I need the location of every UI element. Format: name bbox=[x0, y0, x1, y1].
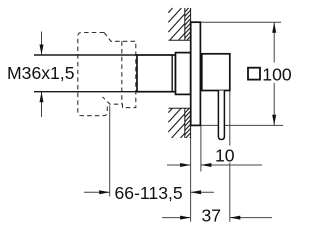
svg-text:66-113,5: 66-113,5 bbox=[115, 183, 183, 203]
svg-text:M36x1,5: M36x1,5 bbox=[7, 63, 75, 83]
svg-text:100: 100 bbox=[262, 64, 292, 84]
svg-text:37: 37 bbox=[202, 205, 222, 225]
svg-text:10: 10 bbox=[215, 145, 235, 165]
